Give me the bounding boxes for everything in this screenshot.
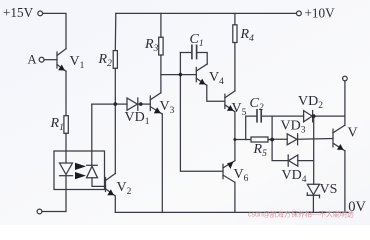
svg-text:V6: V6 [234,167,249,184]
svg-text:C1: C1 [190,32,204,49]
svg-text:VS: VS [320,182,338,197]
svg-text:C2: C2 [250,96,264,113]
svg-text:+15V: +15V [3,5,34,20]
svg-text:VD4: VD4 [282,168,307,185]
svg-text:A: A [28,53,37,67]
svg-text:V: V [348,126,358,141]
svg-text:VD2: VD2 [298,94,323,111]
svg-text:R4: R4 [240,27,255,44]
svg-text:R3: R3 [144,37,159,54]
svg-text:V5: V5 [232,101,247,118]
svg-text:R1: R1 [50,116,64,133]
svg-text:V3: V3 [160,99,175,116]
svg-text:VD1: VD1 [125,110,150,127]
svg-text:V1: V1 [70,54,85,71]
svg-text:+10V: +10V [305,6,336,21]
svg-text:VD3: VD3 [281,119,306,136]
svg-text:V2: V2 [117,180,132,197]
svg-text:csdn@航海方保养相—不大聪明透: csdn@航海方保养相—不大聪明透 [248,210,354,219]
svg-text:R2: R2 [98,52,113,69]
svg-text:R5: R5 [253,142,268,159]
svg-text:V4: V4 [209,70,224,87]
